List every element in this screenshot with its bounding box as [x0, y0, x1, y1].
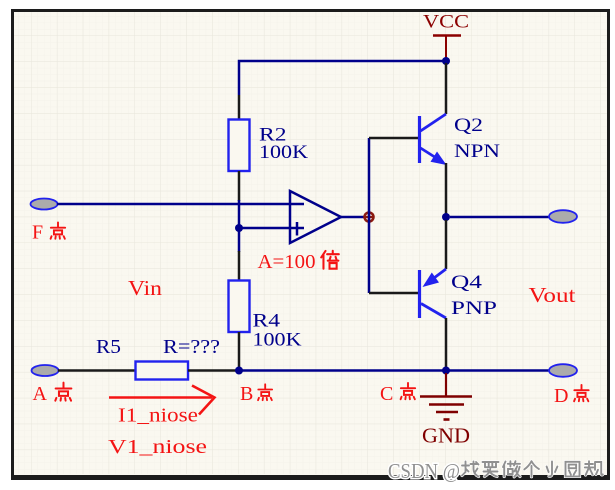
svg-text:Q4: Q4	[451, 273, 482, 293]
power symbol VCC	[423, 12, 469, 61]
wire A to R5	[58, 369, 136, 372]
arrow noise current direction	[109, 386, 215, 415]
wire Q2 emitter to output node	[445, 163, 448, 214]
svg-text:C: C	[380, 383, 393, 405]
wire F to op-amp inverting input	[57, 203, 304, 206]
svg-text:R5: R5	[96, 337, 121, 358]
svg-text:GND: GND	[422, 424, 470, 448]
wire to Q4 base	[369, 292, 418, 295]
svg-text:CSDN @: CSDN @	[388, 459, 460, 483]
svg-text:100K: 100K	[253, 331, 303, 351]
junction at output node	[442, 213, 450, 221]
wire op-amp output node vertical	[368, 138, 371, 293]
svg-text:R4: R4	[253, 312, 281, 332]
wire output node to port	[450, 216, 549, 219]
wire VCC node to Q2 collector	[445, 63, 448, 114]
svg-text:NPN: NPN	[454, 142, 500, 162]
resistor R2	[229, 95, 309, 201]
label F point	[32, 222, 65, 244]
wire top rail from R2 to VCC node	[239, 61, 446, 95]
svg-text:VCC: VCC	[423, 12, 469, 33]
junction at op-amp non-inverting node	[235, 224, 243, 232]
op-amp U1	[290, 191, 365, 243]
svg-text:Vin: Vin	[128, 276, 163, 300]
junction at VCC node	[442, 57, 450, 65]
svg-text:D: D	[554, 385, 568, 407]
wire plus node to op-amp	[239, 227, 304, 230]
svg-text:Q2: Q2	[454, 116, 483, 136]
wire R5 to node B	[188, 369, 236, 372]
port D (right terminal oval)	[549, 364, 577, 377]
label A point	[33, 383, 72, 405]
wire bottom rail B to D	[239, 369, 549, 372]
label A=100x gain	[258, 251, 339, 273]
ground GND	[420, 373, 472, 448]
wire Q4 collector to node C	[445, 318, 448, 367]
port F (input terminal oval)	[31, 199, 58, 210]
svg-text:I1_niose: I1_niose	[118, 405, 198, 427]
svg-text:A=100: A=100	[258, 252, 316, 273]
svg-text:PNP: PNP	[451, 299, 497, 319]
svg-text:100K: 100K	[259, 143, 309, 163]
resistor R5	[96, 337, 220, 380]
wire R2 bottom to op-amp plus node	[238, 200, 241, 252]
transistor Q4	[420, 269, 498, 319]
port output (right oval)	[549, 210, 577, 223]
label C point	[380, 383, 415, 405]
wire output node to Q4 emitter	[445, 220, 448, 269]
svg-text:F: F	[32, 222, 43, 244]
svg-text:V1_niose: V1_niose	[108, 436, 207, 458]
junction node B	[235, 367, 243, 375]
node marker at op-amp output	[364, 212, 375, 223]
label D point	[554, 385, 589, 407]
transistor Q2	[420, 114, 501, 165]
svg-text:R=???: R=???	[163, 337, 220, 358]
port A (left terminal oval)	[32, 365, 59, 376]
svg-text:A: A	[33, 383, 48, 405]
svg-text:Vout: Vout	[529, 283, 576, 307]
svg-text:B: B	[240, 383, 253, 405]
resistor R4	[229, 251, 303, 367]
wire to Q2 base	[369, 137, 418, 140]
label B point	[240, 383, 272, 405]
watermark CSDN	[388, 459, 603, 483]
junction node C	[442, 367, 450, 375]
